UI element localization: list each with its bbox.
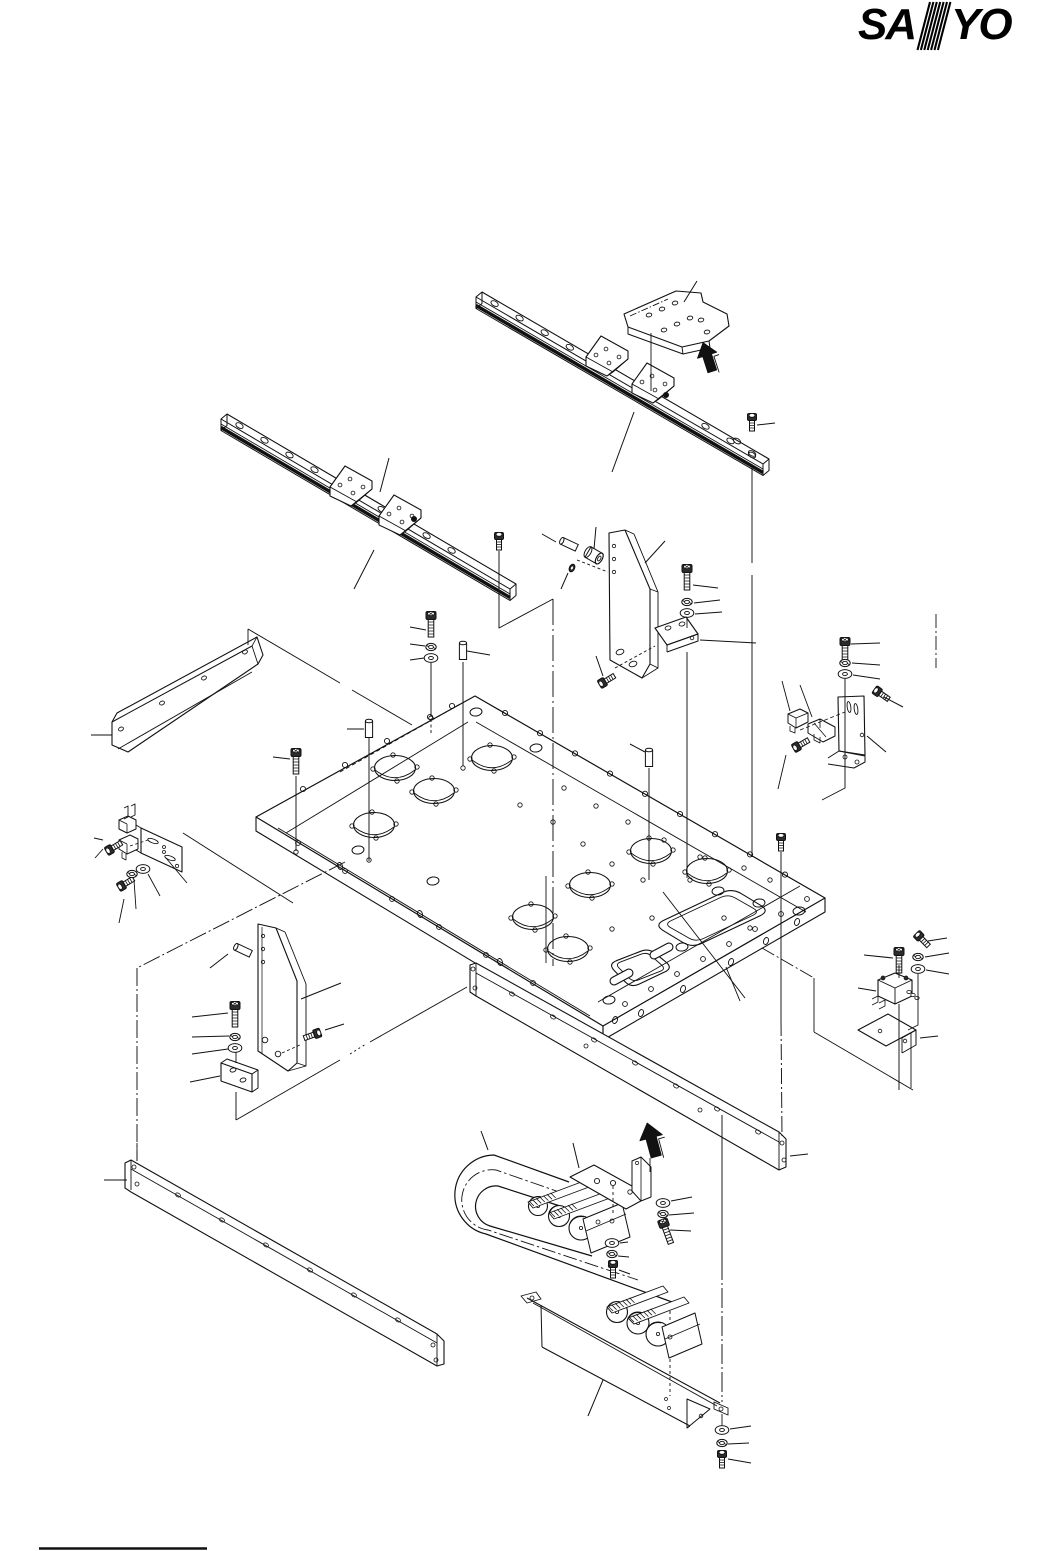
- long dash-dot drop to plate slot: [552, 599, 554, 966]
- strip right end lines: [687, 1426, 690, 1428]
- leader to bottom right bar: [790, 1154, 808, 1156]
- spring washer below screw: [682, 598, 692, 605]
- drop line dowel pin right: [462, 662, 464, 766]
- strip left tab: [521, 1292, 541, 1303]
- rail top edge: [482, 292, 769, 459]
- standoff pin center: [645, 748, 652, 766]
- leader: [928, 938, 947, 941]
- drop lines solenoid: [898, 965, 900, 978]
- leader to rail 2: [354, 550, 374, 589]
- leader to bottom left bar: [104, 1179, 127, 1181]
- link line washers strip: [721, 1414, 723, 1425]
- screw above sensor bracket: [840, 638, 850, 664]
- spring washer below chain bracket: [658, 1210, 668, 1217]
- screw left sensor 2: [116, 875, 136, 892]
- rail right end cap: [763, 459, 769, 476]
- leader to cable chain: [481, 1131, 488, 1150]
- sensor bracket flange holes: [843, 755, 847, 759]
- leader to plate from below: [663, 892, 745, 998]
- cable chain centerline dash-dot: [462, 1170, 638, 1280]
- leader: [192, 1036, 229, 1037]
- leader flat washer: [695, 612, 722, 614]
- leader screw right sensor: [851, 643, 880, 644]
- stop block left: [221, 1063, 252, 1092]
- drop line through spacer block: [686, 619, 688, 628]
- plate large hole 1: [375, 756, 416, 781]
- leader to left spacer bar: [91, 734, 112, 736]
- bottom left bar holes: [175, 1192, 181, 1198]
- leader from screw: [693, 585, 718, 588]
- leaders left sensor assembly: [94, 838, 103, 840]
- bottom left angle bar: [125, 1160, 444, 1366]
- fit line left sensor to bracket: [130, 840, 148, 846]
- rail 2 carriage block 2: [379, 495, 421, 535]
- svg-text:YO: YO: [951, 0, 1012, 49]
- dash-dot boundary left region: [137, 862, 345, 968]
- bottom mounting strip bottom edge: [542, 1347, 690, 1426]
- flat washer right sensor: [838, 670, 852, 679]
- cable clamp (right): [808, 719, 835, 742]
- bent drop line to bracket: [822, 679, 845, 800]
- plate large hole 3: [414, 779, 455, 804]
- rail top face lower edge: [476, 297, 763, 464]
- flat washer below screw: [680, 609, 694, 618]
- spring washer: [426, 643, 436, 650]
- plate large hole 7: [570, 873, 611, 898]
- photo sensor (left): [119, 835, 138, 854]
- rail 2 carriage block 1: [330, 466, 372, 506]
- screw for sensor (right): [791, 736, 811, 753]
- leader: [730, 1426, 751, 1429]
- dashed line screw to plate: [282, 1044, 302, 1053]
- leader: [853, 675, 880, 679]
- left support plate (lower): [258, 924, 297, 1071]
- plate big rounded slot: [659, 891, 765, 946]
- leader to pin: [210, 954, 228, 968]
- leader from nut: [561, 573, 568, 589]
- leader to spring washer: [410, 644, 425, 646]
- plate large hole 6: [687, 859, 728, 884]
- solenoid valve body: [878, 973, 912, 1004]
- slider mount plate holes: [646, 313, 652, 318]
- rail bottom edge: [476, 309, 763, 476]
- bottom mounting strip left wall edge: [541, 1305, 542, 1347]
- leader from spacer block: [700, 640, 756, 643]
- valve tabs: [872, 996, 878, 1005]
- screw right of left support plate: [303, 1028, 323, 1042]
- leader to that screw: [596, 656, 603, 676]
- drop line arrow to tab: [649, 1158, 651, 1172]
- rail 1 end pad holes: [732, 437, 741, 445]
- leader to sensor screw: [778, 755, 786, 789]
- sensor bracket (right): [838, 696, 865, 755]
- rail dark groove stripe: [476, 306, 763, 473]
- base plate inner margin line top-left: [286, 722, 468, 833]
- strip gusset: [687, 1399, 710, 1428]
- screw below chain bracket: [657, 1218, 675, 1245]
- rail mounting holes: [235, 422, 244, 430]
- plate large hole 4: [354, 813, 395, 838]
- cable chain outer boundary: [455, 1155, 672, 1302]
- leader: [926, 970, 949, 974]
- washer below strip: [715, 1426, 729, 1435]
- leader to rail 2 carriage: [380, 458, 389, 492]
- leader: [619, 1270, 630, 1274]
- leader to cable clamp: [800, 685, 812, 717]
- leader from right support plate: [645, 541, 665, 563]
- rail 1 carriage block 2: [632, 363, 674, 403]
- valve top screws: [881, 976, 885, 980]
- footer rule: [39, 1547, 207, 1549]
- sensor bracket slots left: [147, 837, 159, 845]
- sensor bracket slots: [846, 701, 851, 712]
- screw below strip: [718, 1451, 727, 1469]
- leader: [192, 1013, 228, 1017]
- assembly direction arrow (top): [698, 343, 717, 373]
- rail bottom edge: [221, 431, 510, 601]
- dash-dot boundary right of plate: [762, 948, 814, 978]
- leader to photo sensor: [782, 681, 790, 711]
- screw left corner of plate: [291, 749, 301, 775]
- leader: [192, 1049, 228, 1054]
- leader spring washer: [694, 600, 720, 603]
- assembly arrow (chain): [640, 1123, 662, 1158]
- bottom mounting strip lip line: [533, 1303, 717, 1406]
- screw 2 for solenoid: [894, 948, 904, 974]
- fit line sensor to bracket: [800, 712, 845, 730]
- left support plate holes: [261, 934, 264, 937]
- set nut: [568, 563, 576, 572]
- drop line dowel pin: [368, 738, 370, 861]
- dowel pin above plate (left): [365, 719, 372, 737]
- leader to valve: [858, 988, 876, 991]
- alignment tick above bar end: [247, 629, 249, 645]
- washers left sensor: [127, 870, 137, 877]
- second drop line to plate slot: [545, 876, 547, 963]
- small screw right of bracket: [872, 686, 891, 703]
- dashed drop chain bracket: [612, 1186, 614, 1216]
- plate scattered small holes: [470, 707, 483, 717]
- leader to small screw: [884, 697, 903, 707]
- rail 1 carriage block 1: [586, 336, 628, 376]
- base plate inner margin line bottom-right: [598, 886, 800, 1002]
- screw left sensor 1: [104, 839, 124, 856]
- leader to rail 1: [612, 412, 634, 472]
- rail side face line: [221, 424, 510, 594]
- flat washer mid chain: [605, 1239, 619, 1248]
- base plate inner margin line bottom-left: [278, 828, 590, 1016]
- plate margin holes bottom-right edge: [623, 1002, 628, 1007]
- screw for rail 2: [495, 533, 504, 551]
- plate large hole 5: [631, 839, 672, 864]
- spring washer: [230, 1033, 240, 1040]
- plate margin holes bottom-left edge: [296, 841, 301, 846]
- clamp parts left: [119, 816, 136, 833]
- spring washer mid chain: [607, 1250, 617, 1257]
- rail 1 ball dot: [663, 392, 668, 397]
- drop line washer stack to plate: [430, 663, 432, 717]
- plate large hole 2: [472, 746, 513, 771]
- valve ports: [907, 990, 911, 993]
- rail left end cap: [221, 414, 227, 431]
- leader to standoff center: [630, 744, 645, 752]
- alignment line bar to plate: [248, 629, 340, 683]
- strip right tab: [714, 1402, 728, 1415]
- leader: [864, 955, 893, 958]
- drop line mount plate to carriage: [650, 333, 652, 391]
- boundary line to lower bar: [236, 1060, 340, 1120]
- drop line rail 1 screw to plate: [751, 465, 753, 563]
- leader: [852, 663, 880, 665]
- chain link bars bottom run: [607, 1286, 668, 1313]
- drop line left corner screw: [295, 776, 297, 851]
- leader: [620, 1242, 628, 1243]
- slider mount plate dash-dot edge: [630, 299, 668, 316]
- drop line below stop block: [235, 1052, 237, 1063]
- pin near right support plate: [559, 537, 579, 551]
- slider mount plate thickness: [628, 327, 710, 354]
- leader to dowel pin right: [467, 651, 490, 655]
- rail side face line: [476, 302, 763, 469]
- washer below chain bracket: [656, 1199, 670, 1208]
- plate large hole 9: [548, 937, 589, 962]
- leader: [925, 953, 949, 957]
- plate margin holes top-right edge: [502, 710, 507, 715]
- chain link bars top run: [528, 1181, 589, 1208]
- screw lower-left of right support plate: [597, 672, 617, 689]
- cable chain inner boundary: [476, 1186, 592, 1256]
- chain end channel bottom run: [662, 1313, 702, 1358]
- SANYO logo: [858, 0, 1012, 50]
- dashed fit line roller to plate: [577, 560, 608, 572]
- second leader below plate: [726, 967, 740, 1001]
- drop line standoff center: [648, 768, 650, 880]
- dowel pin above plate (right): [459, 641, 466, 659]
- leader: [728, 1443, 749, 1444]
- screw at plate right corner: [777, 834, 786, 852]
- leader to dowel pin: [347, 728, 364, 730]
- screw left support: [230, 1002, 240, 1028]
- leader from rail screw: [757, 423, 775, 425]
- leader from slider mount plate: [684, 281, 697, 302]
- screw mid chain: [609, 1261, 618, 1279]
- plate small slot 2: [614, 973, 629, 981]
- chain link rollers top run: [529, 1197, 548, 1216]
- base plate inner margin line top-right: [476, 722, 806, 912]
- svg-text:SA: SA: [858, 0, 915, 49]
- screw above spacer block: [682, 565, 692, 591]
- rail dark groove stripe: [221, 428, 510, 598]
- roller spacer: [582, 545, 604, 565]
- rail 2 ball dot: [411, 516, 416, 521]
- leader from roller: [594, 527, 596, 549]
- flat washer: [424, 654, 438, 663]
- base plate hidden dashed line along top-left rim: [340, 703, 462, 772]
- dash-dot drop right side: [935, 614, 937, 668]
- drop line right corner screw: [780, 852, 782, 1020]
- slider mount plate (top bracket): [624, 291, 729, 347]
- rail mounting holes: [490, 300, 499, 308]
- spring washer solenoid: [913, 953, 923, 960]
- spring washer right sensor: [840, 659, 850, 666]
- leader to stop block: [190, 1076, 220, 1082]
- bottom right bar holes: [509, 991, 515, 997]
- leader to flat washer: [410, 658, 424, 660]
- dashed line block to plate holes: [615, 646, 655, 668]
- plate margin holes top-left edge: [449, 703, 454, 708]
- leader: [669, 1213, 694, 1215]
- rail right end cap: [510, 584, 516, 601]
- chain end channel top run: [583, 1203, 630, 1253]
- leader: [618, 1256, 629, 1257]
- drop line rail 2 screw: [499, 551, 553, 628]
- leader to strip: [588, 1380, 603, 1416]
- bottom mounting strip top edge: [527, 1298, 720, 1403]
- leader to left corner screw: [273, 757, 290, 759]
- base plate thickness front faces: [256, 817, 603, 1040]
- leader to valve bracket: [920, 1036, 938, 1038]
- leader: [670, 1230, 691, 1231]
- plate medium rounded slot: [612, 950, 670, 985]
- base plate top face: [256, 696, 825, 1026]
- rail left end cap: [476, 292, 482, 309]
- spacer block right: [655, 617, 698, 645]
- plate small slot 1: [654, 947, 669, 955]
- valve mounting bracket: [858, 1014, 916, 1046]
- rail top edge: [227, 414, 516, 584]
- left spacer bar (upper left): [112, 637, 263, 752]
- flat washer: [228, 1044, 242, 1053]
- chain link rollers bottom run: [607, 1302, 628, 1323]
- leader to chain bracket: [573, 1143, 579, 1168]
- strip face dashed hole: [669, 1305, 671, 1333]
- rail top face lower edge: [221, 419, 510, 589]
- chain bracket plate: [570, 1165, 650, 1209]
- left spacer bar holes: [118, 726, 124, 732]
- sensor bracket (left): [141, 828, 182, 872]
- plate oval holes on front thickness face: [612, 1016, 619, 1024]
- long drop line to strip tab: [721, 1115, 723, 1260]
- screw for solenoid valve: [913, 930, 932, 949]
- chain bracket upright tab: [632, 1157, 651, 1201]
- photo sensor (right): [788, 709, 808, 728]
- chain link hatching top run: [529, 1201, 534, 1206]
- tick above bar: [136, 1143, 138, 1161]
- leader to screw: [410, 627, 426, 630]
- leader from sensor bracket: [867, 736, 886, 752]
- leader from left support plate: [301, 983, 341, 999]
- flat washer solenoid: [911, 965, 925, 974]
- right support plate (upper): [609, 530, 650, 678]
- leader to pin: [542, 534, 556, 542]
- bottom right angle bar: [470, 963, 786, 1170]
- spring washer below strip: [717, 1439, 727, 1446]
- pin near left support plate: [233, 943, 253, 957]
- leader: [325, 1024, 344, 1030]
- screw M4 (plate left): [426, 612, 436, 638]
- plate large hole 8: [513, 905, 554, 930]
- screw for rail 1: [748, 414, 757, 432]
- leader: [671, 1197, 692, 1201]
- right support plate holes: [612, 544, 615, 547]
- chain link hatching bottom run: [608, 1306, 613, 1311]
- leader: [728, 1459, 751, 1463]
